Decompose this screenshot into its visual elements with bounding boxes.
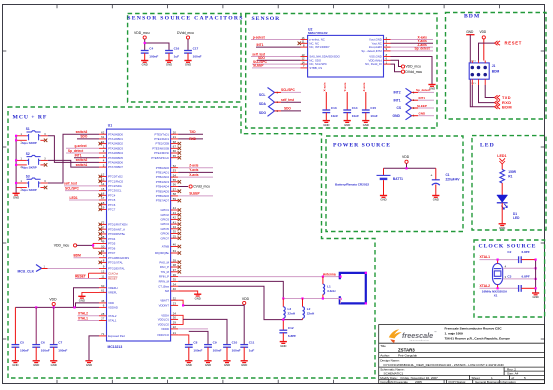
wire D1 to ground [501, 203, 503, 224]
svg-text:MCU + RF: MCU + RF [13, 115, 48, 121]
svg-text:Freescale Semiconductor Roznov: Freescale Semiconductor Roznov CSC [445, 326, 503, 330]
svg-text:PTE4/MOSI: PTE4/MOSI [154, 151, 169, 155]
capacitor C10 100nF [223, 340, 241, 352]
svg-text:PTC0/TxD2: PTC0/TxD2 [108, 175, 123, 179]
svg-text:RESET: RESET [108, 277, 118, 281]
svg-text:C5: C5 [20, 340, 24, 344]
svg-text:100nF: 100nF [58, 348, 67, 352]
svg-text:PAO_P: PAO_P [160, 265, 169, 269]
svg-text:GND: GND [205, 363, 211, 367]
svg-text:PTG0/BKGD/MS: PTG0/BKGD/MS [108, 256, 129, 260]
wire CVdd stub [178, 186, 188, 188]
svg-text:U1: U1 [108, 123, 112, 127]
svg-text:C10: C10 [232, 340, 238, 344]
svg-text:100nF: 100nF [193, 348, 202, 352]
wire net Z-axis from U2 [391, 46, 434, 48]
svg-text:Petr Gargulak: Petr Gargulak [398, 353, 418, 357]
svg-text:freescale: freescale [402, 331, 433, 340]
section box BDM [446, 13, 547, 120]
svg-text:FCPI Status:: FCPI Status: [449, 380, 467, 384]
svg-text:Exposed Pad: Exposed Pad [108, 334, 125, 338]
svg-text:VDD_mcu: VDD_mcu [405, 65, 421, 69]
svg-text:GND: GND [499, 226, 505, 230]
svg-text:GPIO1: GPIO1 [160, 208, 169, 212]
svg-text:SDA: SDA [259, 102, 267, 106]
svg-text:PTA4/KBD4: PTA4/KBD4 [108, 151, 123, 155]
svg-text:C3: C3 [507, 274, 511, 278]
svg-text:g-select: g-select [75, 144, 88, 148]
svg-text:Alps SKRP: Alps SKRP [22, 141, 37, 145]
svg-text:GND: GND [195, 296, 201, 300]
diode D1 LED [497, 195, 520, 220]
wire Y-axis stub [178, 171, 213, 173]
ground [241, 361, 248, 367]
svg-text:SLEEP: SLEEP [189, 192, 200, 196]
wire X1 pin4 to ground rail [503, 267, 536, 269]
svg-text:X-axis: X-axis [322, 82, 326, 91]
svg-text:Sp - detect,INT2: Sp - detect,INT2 [361, 49, 382, 53]
wire net g-select [66, 147, 99, 149]
wire XTAL2 [480, 287, 519, 289]
svg-text:VDDVCO: VDDVCO [157, 333, 170, 337]
section box CLOCK SOURCE [474, 240, 545, 317]
svg-text:PTB1/AD1: PTB1/AD1 [156, 171, 170, 175]
svg-text:VDDLO1: VDDLO1 [158, 318, 170, 322]
svg-text:PTD6: PTD6 [108, 246, 116, 250]
wire antenna bottom [283, 299, 340, 304]
wire net Sp_detect from U2 [391, 50, 434, 52]
svg-text:PTE3/MISOB: PTE3/MISOB [152, 146, 169, 150]
svg-text:Author:: Author: [380, 353, 390, 357]
svg-text:5: 5 [524, 376, 526, 380]
svg-text:SCL/SPC: SCL/SPC [65, 186, 80, 190]
svg-text:C15: C15 [370, 106, 376, 110]
wire XTAL2 stub [78, 315, 100, 317]
ground below C12 [280, 342, 287, 348]
svg-text:PTB3/AD3: PTB3/AD3 [156, 180, 170, 184]
capacitor C4 100nF [141, 46, 159, 58]
svg-text:PTB0/AD0: PTB0/AD0 [156, 166, 170, 170]
svg-text:PAO_M: PAO_M [159, 260, 169, 264]
svg-text:BDM: BDM [502, 104, 512, 109]
svg-text:PTA5/KBD5: PTA5/KBD5 [108, 156, 123, 160]
svg-text:PTA7/KBD7: PTA7/KBD7 [108, 165, 123, 169]
wire VDDD stub [178, 328, 208, 330]
svg-text:SENSOR SOURCE CAPACITORS: SENSOR SOURCE CAPACITORS [127, 16, 243, 22]
svg-text:RESET: RESET [505, 41, 522, 46]
svg-text:LED: LED [480, 142, 495, 148]
svg-text:+: + [430, 174, 432, 178]
svg-text:GND: GND [344, 123, 350, 127]
inductor L3 leads [282, 299, 284, 307]
svg-text:GND: GND [185, 63, 191, 67]
power port CVdd_mcu [189, 185, 210, 189]
svg-text:PTA1/KBD1: PTA1/KBD1 [108, 137, 123, 141]
svg-text:Y-axis: Y-axis [189, 168, 198, 172]
wire Z-axis stub [178, 167, 213, 169]
section box MCU + RF [8, 107, 375, 378]
svg-text:C12: C12 [288, 326, 294, 330]
wire MCU_CLK to U1 EXTAL [48, 268, 100, 270]
svg-text:VDD_mcu: VDD_mcu [54, 244, 70, 248]
svg-text:S2: S2 [26, 152, 30, 156]
ground below C1 [432, 196, 439, 202]
wire VDDA join [178, 315, 183, 324]
svg-text:GPIO3: GPIO3 [160, 218, 169, 222]
svg-text:PTB2/AD2: PTB2/AD2 [156, 175, 170, 179]
wire net INT1 [74, 157, 99, 159]
svg-text:Battery/Renata CR2032: Battery/Renata CR2032 [335, 182, 369, 186]
capacitor C3 6.8PF [507, 274, 529, 291]
ground [12, 361, 19, 367]
wire DVdd_mcu to C17 [187, 39, 189, 50]
ground below BATT1 [380, 196, 387, 202]
power port VDD_mcu [134, 31, 150, 39]
ground right of U1 [194, 294, 201, 300]
wire C12 to ground [282, 333, 284, 342]
svg-text:SDO: SDO [80, 135, 87, 139]
ground below exposed pad [85, 361, 92, 367]
ground below C16 [165, 61, 172, 67]
svg-text:C11: C11 [249, 340, 255, 344]
svg-text:PTG1/XTAL: PTG1/XTAL [108, 261, 123, 265]
svg-text:SCHEMATIC1: SCHEMATIC1 [384, 372, 404, 376]
svg-text:C8: C8 [193, 340, 197, 344]
wire C15 to ground [365, 113, 367, 121]
svg-text:Z-axis: Z-axis [362, 82, 366, 91]
svg-text:100nF: 100nF [41, 348, 50, 352]
svg-text:GND: GND [323, 123, 329, 127]
wire jumper to self_test [281, 101, 301, 103]
wire VDD pin [76, 303, 100, 308]
svg-text:GPIO5: GPIO5 [160, 227, 169, 231]
wire net RESET to U1 [75, 278, 99, 280]
svg-text:GND: GND [186, 363, 192, 367]
freescale logo [389, 329, 437, 343]
svg-text:GND: GND [419, 112, 427, 116]
svg-text:PTE5/SPICLK: PTE5/SPICLK [151, 156, 169, 160]
wire net self_test to U2 [251, 56, 301, 58]
wire C13 to ground [325, 113, 327, 121]
svg-text:CS: CS [397, 106, 402, 110]
wire X1 pin3 to ground rail [503, 278, 536, 280]
svg-text:C1: C1 [446, 173, 450, 177]
svg-text:XTAL2: XTAL2 [78, 312, 88, 316]
connector J1 BDM [469, 61, 499, 86]
wire cap to ground [188, 347, 190, 361]
svg-text:GND: GND [433, 198, 439, 202]
svg-text:VREFL: VREFL [108, 291, 117, 295]
battery BATT1 [383, 168, 385, 175]
svg-text:GND: GND [13, 196, 19, 200]
svg-text:PTE0/TxD1: PTE0/TxD1 [155, 132, 170, 136]
svg-text:DVdd_mcu: DVdd_mcu [405, 70, 422, 74]
wire net p-select to U2 [251, 39, 301, 41]
svg-text:TXD: TXD [189, 130, 196, 134]
ground below C4 [141, 61, 148, 67]
capacitor C17 100nF [184, 46, 202, 58]
svg-text:SM: SM [165, 289, 170, 293]
svg-text:100nF: 100nF [20, 348, 29, 352]
svg-text:PTD1/RXTXEN: PTD1/RXTXEN [108, 223, 127, 227]
svg-text:LED: LED [513, 216, 520, 220]
svg-text:switch2: switch2 [76, 158, 88, 162]
svg-text:NC, INT1/DRDY: NC, INT1/DRDY [309, 45, 329, 49]
capacitor C14 10nF [343, 106, 359, 118]
svg-text:C13: C13 [331, 106, 337, 110]
svg-text:™: ™ [434, 331, 437, 334]
svg-text:PTC6: PTC6 [108, 203, 116, 207]
svg-text:semiconductor: semiconductor [410, 339, 430, 342]
svg-text:C17: C17 [193, 46, 199, 50]
svg-text:GND: GND [380, 198, 386, 202]
net RXD chevron and label [495, 100, 501, 104]
svg-text:VDD: VDD [108, 301, 114, 305]
net RESET chevron and label [495, 41, 501, 45]
ground below C13 [323, 121, 330, 127]
svg-text:1. maje 1009: 1. maje 1009 [445, 331, 464, 335]
svg-text:PTA2/KBD2: PTA2/KBD2 [108, 142, 123, 146]
svg-text:GPIO4: GPIO4 [160, 222, 169, 226]
wire battery rail [384, 167, 436, 169]
svg-text:PTD0/RSTBe: PTD0/RSTBe [108, 232, 125, 236]
wire CLKOut join [88, 273, 90, 278]
ground below switches [13, 193, 20, 199]
svg-text:R1: R1 [508, 174, 512, 178]
wire VDD to C11 [243, 305, 245, 345]
svg-text:PTC1/RxD2: PTC1/RxD2 [108, 179, 123, 183]
wire RXD stub [178, 138, 203, 140]
svg-text:GND: GND [224, 363, 230, 367]
wire J1 pin3 to RXD [479, 85, 495, 103]
wire net SCL/SPC to U2 [252, 63, 301, 65]
wire switch3 [48, 134, 99, 183]
svg-text:LED1: LED1 [497, 154, 506, 158]
jumper header INT2/INT1/CS/GND [406, 88, 412, 120]
svg-text:756 61 Roznov p.R., Czech Repu: 756 61 Roznov p.R., Czech Republic, Euro… [445, 336, 511, 340]
wire net self_test to U1 [64, 185, 99, 187]
wire net SCL/SPC to U1 [65, 190, 99, 192]
svg-text:Sp_detect: Sp_detect [68, 149, 84, 153]
ground below U2 VSS [428, 85, 435, 91]
ground below C15 [362, 121, 369, 127]
svg-text:VDD: VDD [242, 297, 250, 301]
svg-text:10nF: 10nF [370, 114, 377, 118]
ground [223, 361, 230, 367]
ground [33, 361, 40, 367]
svg-text:XTAL2: XTAL2 [108, 314, 117, 318]
svg-text:J1: J1 [492, 64, 496, 68]
wire jumper to Sp_detect [418, 91, 434, 93]
wire VREFH [74, 288, 100, 308]
svg-text:PTC5: PTC5 [108, 198, 116, 202]
svg-text:SDO: SDO [284, 107, 291, 111]
wire net SDO to U2 [257, 59, 301, 61]
wire J1 pin5 to TXD [485, 85, 494, 98]
svg-text:INT1: INT1 [394, 98, 401, 102]
svg-text:Copyright Freescale: Copyright Freescale [380, 380, 408, 384]
svg-text:PTD5: PTD5 [108, 242, 116, 246]
svg-text:100nF: 100nF [193, 54, 202, 58]
wire X-axis stub [178, 176, 213, 178]
svg-text:General Business Information: General Business Information [475, 380, 516, 384]
svg-text:XTAL1: XTAL1 [480, 255, 491, 259]
power port VDD_mcu [401, 65, 421, 69]
ground in clock source [532, 293, 539, 299]
svg-text:GND: GND [51, 363, 57, 367]
svg-text:PTC4: PTC4 [108, 193, 116, 197]
section box POWER SOURCE [326, 136, 463, 232]
svg-text:TIN_M: TIN_M [161, 270, 170, 274]
net BDM chevron and label [495, 105, 501, 109]
wire exposed pad [89, 336, 99, 361]
svg-text:SCL/SPC: SCL/SPC [281, 88, 296, 92]
wire VDD_mcu to C16 [145, 43, 169, 51]
wire LED1 to R1 [501, 164, 503, 170]
svg-text:PTB7/AD7: PTB7/AD7 [156, 199, 170, 203]
svg-text:C4: C4 [149, 46, 153, 50]
wire RFIN_M [178, 281, 283, 298]
wire cap to ground [35, 347, 37, 361]
section box SENSOR SOURCE CAPACITORS [128, 14, 241, 103]
wire C4 to ground [144, 53, 146, 60]
svg-text:PTE1/RxD1: PTE1/RxD1 [154, 137, 169, 141]
svg-text:POWER SOURCE: POWER SOURCE [333, 143, 391, 149]
svg-text:INT2: INT2 [394, 91, 401, 95]
svg-text:6.8PF: 6.8PF [522, 250, 530, 254]
svg-text:SLEEP: SLEEP [253, 64, 264, 68]
wire to C9 [189, 331, 208, 344]
wire jumper to GND [418, 115, 434, 117]
crystal X1 16MHz NX2520SA [482, 263, 508, 297]
svg-text:XTAL1: XTAL1 [78, 316, 88, 320]
ground below D1 [499, 224, 506, 230]
svg-text:GND: GND [363, 123, 369, 127]
wire cap to ground [14, 347, 16, 361]
wire VDD to J1 pin6 [483, 39, 485, 61]
svg-text:p-select: p-select [253, 35, 266, 39]
svg-text:Design Name:: Design Name: [380, 358, 400, 362]
svg-text:C2: C2 [507, 250, 511, 254]
capacitor C15 10nF [362, 106, 378, 118]
resistor R1 150R [500, 170, 517, 184]
capacitor C7 100nF [50, 340, 68, 352]
svg-text:RFIN_M: RFIN_M [159, 280, 170, 284]
svg-text:PTC7: PTC7 [108, 208, 116, 212]
wire antenna top [178, 276, 340, 278]
wire net Y-axis from U2 [391, 42, 434, 44]
antenna ANT1 [340, 273, 366, 304]
wire net BDM to U1 [74, 257, 100, 259]
capacitor C9 100nF [204, 340, 222, 352]
svg-text:CT_Bias: CT_Bias [158, 284, 169, 288]
svg-text:PTB5/AD5: PTB5/AD5 [156, 189, 170, 193]
wire jumper to INT1 [418, 99, 434, 101]
power port DVdd_mcu [401, 70, 422, 74]
wire jumper to SDO [281, 110, 301, 112]
section box SENSOR [246, 14, 437, 129]
svg-text:INT1: INT1 [75, 154, 82, 158]
svg-text:DYCONCWR6B0119L_VIEW_DEVICONNA: DYCONCWR6B0119L_VIEW_DEVICONNAC116 - ZST… [384, 363, 505, 367]
svg-text:MCU_CLK: MCU_CLK [18, 270, 35, 274]
ground below VREFL [78, 296, 85, 302]
svg-text:GND: GND [280, 344, 286, 348]
svg-text:PTC3/SCL: PTC3/SCL [108, 189, 122, 193]
svg-text:DVdd_mcu: DVdd_mcu [177, 31, 194, 35]
ground [50, 361, 57, 367]
svg-text:22nH: 22nH [307, 311, 315, 315]
svg-text:PTA0/KBD0: PTA0/KBD0 [108, 132, 123, 136]
svg-text:150R: 150R [508, 170, 516, 174]
wire VBATT join [178, 300, 183, 305]
ground below C14 [344, 121, 351, 127]
svg-text:PTD3/ANT_A: PTD3/ANT_A [108, 227, 125, 231]
capacitor C13 10nF [322, 106, 338, 118]
svg-text:switch3: switch3 [76, 130, 88, 134]
svg-text:Sp_detect: Sp_detect [415, 47, 431, 51]
capacitor C16 1uF [165, 46, 179, 58]
wire VDD port stem [53, 306, 55, 308]
power port DVdd_mcu [177, 31, 194, 39]
wire XTAL1 [480, 259, 519, 261]
capacitor C2 6.8PF [507, 250, 529, 263]
svg-text:6.8PF: 6.8PF [288, 334, 296, 338]
ground [185, 361, 192, 367]
svg-text:100nF: 100nF [213, 348, 222, 352]
svg-text:C7: C7 [58, 340, 62, 344]
wire switch1 [48, 160, 99, 167]
wire VDD_mcu to U1 [77, 244, 93, 246]
wire U2 VDD to VDD_mcu port [391, 60, 402, 66]
jumper header SCL/SDA/SDO [268, 88, 275, 117]
svg-text:C16: C16 [174, 46, 180, 50]
svg-text:10nF: 10nF [331, 114, 338, 118]
wire VDDLO to C10 [183, 319, 227, 344]
svg-text:GND: GND [142, 63, 148, 67]
wire cap to ground [207, 347, 209, 361]
svg-text:2 4 6: 2 4 6 [471, 61, 477, 63]
svg-text:Alps SKRP: Alps SKRP [22, 188, 37, 192]
svg-text:INT1: INT1 [257, 43, 264, 47]
wire rail down to C5 C6 C7 [14, 307, 16, 344]
svg-text:100nF: 100nF [232, 348, 241, 352]
svg-text:RESET: RESET [75, 274, 86, 278]
svg-text:1uF: 1uF [249, 348, 255, 352]
svg-text:MC13213: MC13213 [108, 345, 123, 349]
svg-text:3.3nH: 3.3nH [327, 289, 336, 293]
svg-text:GND: GND [466, 30, 474, 34]
wire jumper to SCL/SPC [281, 91, 301, 93]
capacitor C12 6.8PF [279, 326, 296, 338]
svg-text:self_test: self_test [64, 182, 78, 186]
power port [482, 36, 485, 39]
svg-text:self_test: self_test [281, 98, 295, 102]
wire VDDVCO to C8 [178, 335, 189, 345]
svg-text:Z-axis: Z-axis [189, 164, 198, 168]
svg-text:VDD: VDD [49, 298, 57, 302]
svg-text:BDM: BDM [464, 13, 480, 19]
power port VDD [402, 155, 410, 163]
svg-text:D1: D1 [513, 212, 517, 216]
wire cap to ground [243, 347, 245, 361]
svg-text:S1: S1 [26, 127, 30, 131]
wire U2 DVdd_IO to DVdd_mcu port [391, 64, 402, 72]
capacitor C8 100nF [185, 340, 203, 352]
svg-text:VDD_mcu: VDD_mcu [134, 31, 150, 35]
wire CT_Bias return [178, 286, 302, 319]
svg-text:Sp_detect: Sp_detect [416, 88, 430, 92]
svg-text:1uF: 1uF [174, 54, 180, 58]
